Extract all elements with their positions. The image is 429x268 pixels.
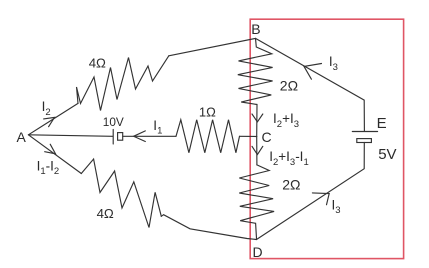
wire battery E to node D	[257, 143, 365, 240]
svg-text:E: E	[377, 115, 387, 132]
svg-text:A: A	[17, 129, 27, 145]
svg-text:5V: 5V	[378, 146, 396, 163]
resistor 4ohm lower	[81, 159, 161, 228]
resistor 2ohm lower	[239, 165, 274, 239]
battery 10V long plate	[112, 130, 114, 145]
svg-text:I2+I3-I1: I2+I3-I1	[269, 149, 309, 168]
wire lower 4ohm to node D	[161, 215, 256, 240]
wire upper 2ohm to node C	[256, 105, 258, 137]
svg-text:D: D	[253, 244, 263, 260]
arrow I1-I2	[45, 144, 56, 154]
svg-text:2Ω: 2Ω	[280, 78, 298, 94]
arrow I2+I3	[252, 114, 263, 122]
arrow I1	[134, 131, 146, 142]
arrow I3 lower	[312, 193, 329, 205]
resistor 2ohm upper	[238, 38, 273, 104]
battery E short plate	[357, 139, 372, 143]
svg-text:I2+I3: I2+I3	[273, 111, 299, 130]
svg-text:I3: I3	[329, 54, 338, 73]
svg-text:1Ω: 1Ω	[199, 105, 216, 120]
svg-text:10V: 10V	[103, 115, 124, 129]
wire upper 4ohm to node B	[169, 38, 256, 55]
svg-text:C: C	[262, 129, 272, 145]
svg-text:4Ω: 4Ω	[97, 206, 114, 221]
wire 1ohm to node C	[240, 135, 257, 137]
wire A to lower 4ohm	[28, 135, 81, 174]
svg-text:B: B	[251, 21, 260, 37]
arrow I3 upper	[304, 64, 322, 80]
resistor 1ohm	[176, 120, 240, 153]
wire node B to battery E	[256, 38, 365, 131]
resistor 4ohm upper	[77, 56, 169, 111]
svg-text:I2: I2	[42, 99, 51, 118]
svg-text:2Ω: 2Ω	[282, 176, 300, 192]
wire A to upper 4ohm	[28, 103, 78, 134]
battery 10V short plate	[118, 133, 123, 141]
red region box	[250, 19, 403, 258]
wire battery 10V to 1ohm	[123, 135, 176, 137]
wire A to battery 10V	[28, 135, 112, 137]
arrow I2	[44, 117, 55, 126]
battery E long plate	[352, 131, 377, 133]
arrow I2+I3-I1	[252, 146, 263, 154]
svg-text:4Ω: 4Ω	[89, 56, 106, 71]
wire node C to lower 2ohm	[256, 137, 258, 165]
svg-text:I1-I2: I1-I2	[37, 159, 60, 178]
svg-text:I1: I1	[153, 118, 162, 137]
svg-text:I3: I3	[332, 198, 341, 217]
